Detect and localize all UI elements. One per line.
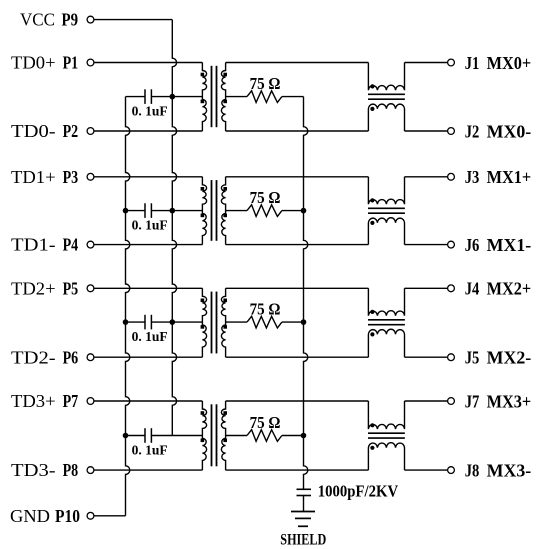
label J2 MX0- (465, 121, 532, 141)
svg-text:MX0-: MX0- (487, 121, 532, 141)
transformer T4 phase dots (201, 411, 227, 442)
svg-text:MX3+: MX3+ (487, 391, 532, 411)
wire secondary bottom to choke (226, 130, 369, 132)
label TD3+ P7 (11, 391, 78, 411)
choke L4 bottom winding (368, 443, 404, 470)
terminal J6 MX1- (448, 241, 455, 248)
svg-text:MX1-: MX1- (487, 235, 532, 255)
svg-text:75 Ω: 75 Ω (250, 74, 281, 93)
transformer T3 secondary winding (221, 288, 225, 357)
svg-text:J5: J5 (465, 348, 480, 368)
junction VCC bus channel 1 (170, 208, 176, 214)
svg-text:MX1+: MX1+ (487, 167, 532, 187)
svg-text:TD0-: TD0- (11, 121, 56, 141)
net VCC vertical bus (172, 20, 176, 436)
terminal TD3+ P7 (87, 398, 94, 405)
net shield resistor bus (304, 97, 308, 490)
wire resistor to shield bus (282, 210, 304, 212)
label GND P10 (10, 506, 80, 526)
svg-text:SHIELD: SHIELD (280, 531, 326, 548)
terminal TD0- P2 (87, 128, 94, 135)
choke L2 core (368, 208, 405, 213)
wire TD2+ (94, 287, 202, 289)
label TD0+ P1 (11, 53, 78, 73)
wire secondary bottom to choke (226, 356, 369, 358)
choke L2 bottom winding (368, 218, 404, 245)
label J5 MX2- (465, 348, 532, 368)
choke L1 phase dots (370, 84, 374, 111)
label TD2- P6 (11, 347, 78, 367)
terminal J7 MX3+ (448, 398, 455, 405)
junction GND bus channel 3 (123, 433, 129, 439)
svg-text:0. 1uF: 0. 1uF (132, 219, 168, 234)
terminal J8 MX3- (448, 467, 455, 474)
wire choke to J6 (405, 244, 448, 246)
svg-text:TD3+: TD3+ (11, 391, 56, 411)
terminal TD2+ P5 (87, 285, 94, 292)
transformer T4 primary winding (202, 401, 206, 470)
choke L3 bottom winding (368, 329, 404, 357)
choke L1 core (368, 94, 405, 99)
svg-text:P2: P2 (63, 121, 79, 141)
choke L4 phase dots (370, 423, 374, 450)
junction VCC bus channel 0 (170, 94, 176, 100)
transformer T2 core (212, 180, 217, 241)
wire TD0+ (94, 62, 202, 64)
choke L3 top winding (368, 288, 404, 315)
transformer T3 primary winding (202, 288, 206, 357)
svg-text:TD2+: TD2+ (11, 278, 56, 298)
wire GND to bus (94, 515, 126, 517)
ground GND terminal P10 (87, 512, 94, 519)
svg-text:J2: J2 (465, 121, 480, 141)
wire resistor to shield bus (282, 96, 304, 98)
svg-text:75 Ω: 75 Ω (250, 300, 281, 319)
transformer T1 core (212, 66, 217, 127)
svg-text:0. 1uF: 0. 1uF (132, 330, 168, 345)
terminal TD0+ P1 (87, 59, 94, 66)
wire secondary top to choke (226, 176, 369, 178)
wire TD0- (94, 130, 202, 132)
label TD1- P4 (11, 235, 78, 255)
wire primary center tap (172, 321, 202, 323)
svg-text:TD2-: TD2- (11, 347, 56, 367)
transformer T1 phase dots (201, 73, 227, 104)
terminal TD1+ P3 (87, 173, 94, 180)
label J7 MX3+ (465, 391, 532, 411)
capacitor C3 0.1uF (126, 315, 173, 330)
wire secondary bottom to choke (226, 244, 369, 246)
svg-text:P3: P3 (63, 167, 79, 187)
svg-text:J7: J7 (465, 391, 480, 411)
wire secondary center tap (226, 96, 247, 98)
label J6 MX1- (465, 235, 532, 255)
svg-text:P1: P1 (63, 53, 79, 73)
junction shield bus channel 3 (301, 433, 307, 439)
power VCC terminal P9 (87, 16, 94, 23)
label J1 MX0+ (465, 53, 532, 73)
label J8 MX3- (465, 461, 532, 481)
wire TD1- (94, 244, 202, 246)
svg-text:P8: P8 (63, 460, 79, 480)
wire choke to J8 (405, 469, 448, 471)
wire TD2- (94, 356, 202, 358)
svg-text:GND: GND (10, 506, 50, 526)
junction VCC bus channel 2 (170, 319, 176, 325)
svg-text:J4: J4 (465, 279, 480, 299)
svg-text:TD1+: TD1+ (11, 167, 56, 187)
choke L4 top winding (368, 401, 404, 429)
resistor R3 75 ohm (247, 316, 282, 328)
transformer T3 phase dots (201, 299, 227, 329)
svg-text:75 Ω: 75 Ω (250, 413, 281, 432)
svg-text:P4: P4 (63, 235, 79, 255)
wire choke to J5 (405, 356, 448, 358)
label TD3- P8 (11, 460, 78, 480)
svg-text:1000pF/2KV: 1000pF/2KV (318, 482, 399, 501)
svg-text:0. 1uF: 0. 1uF (132, 444, 168, 459)
wire choke to J1 (405, 62, 448, 64)
terminal TD1- P4 (87, 241, 94, 248)
choke L2 phase dots (370, 198, 374, 225)
wire secondary center tap (226, 210, 247, 212)
wire TD1+ (94, 176, 202, 178)
wire secondary top to choke (226, 287, 369, 289)
wire primary center tap (172, 96, 202, 98)
wire TD3+ (94, 400, 202, 402)
wire VCC to bus (94, 19, 172, 21)
wire resistor to shield bus (282, 435, 304, 437)
net GND vertical bus (126, 97, 130, 516)
svg-text:0. 1uF: 0. 1uF (132, 105, 168, 120)
capacitor C1 0.1uF (126, 89, 173, 104)
choke L1 top winding (368, 63, 404, 91)
label TD1+ P3 (11, 167, 78, 187)
terminal J4 MX2+ (448, 285, 455, 292)
terminal TD2- P6 (87, 354, 94, 361)
transformer T2 primary winding (202, 177, 206, 245)
svg-text:P9: P9 (62, 10, 79, 30)
transformer T4 secondary winding (221, 401, 225, 470)
transformer T2 phase dots (201, 187, 227, 217)
terminal TD3- P8 (87, 467, 94, 474)
transformer T4 core (212, 404, 217, 466)
choke L3 phase dots (370, 310, 374, 337)
wire secondary bottom to choke (226, 469, 369, 471)
capacitor C4 0.1uF (126, 428, 173, 443)
wire choke to J4 (405, 287, 448, 289)
svg-text:MX2-: MX2- (487, 348, 532, 368)
label VCC P9 (20, 10, 78, 30)
svg-text:MX0+: MX0+ (487, 53, 532, 73)
svg-text:75 Ω: 75 Ω (250, 188, 281, 207)
wire secondary top to choke (226, 400, 369, 402)
terminal J1 MX0+ (448, 59, 455, 66)
wire primary center tap (172, 435, 202, 437)
wire secondary center tap (226, 321, 247, 323)
wire choke to J3 (405, 176, 448, 178)
junction shield bus channel 2 (301, 319, 307, 325)
wire choke to J7 (405, 400, 448, 402)
capacitor C2 0.1uF (126, 203, 173, 218)
label J3 MX1+ (465, 167, 532, 187)
label TD2+ P5 (11, 278, 78, 298)
wire secondary center tap (226, 435, 247, 437)
junction GND bus channel 2 (123, 319, 129, 325)
svg-text:TD1-: TD1- (11, 235, 56, 255)
svg-text:P6: P6 (63, 347, 79, 367)
resistor R4 75 ohm (247, 430, 282, 442)
svg-text:J8: J8 (465, 461, 480, 481)
transformer T1 primary winding (202, 63, 206, 132)
choke L2 top winding (368, 177, 404, 204)
svg-text:J1: J1 (465, 53, 480, 73)
transformer T2 secondary winding (221, 177, 225, 245)
choke L3 core (368, 320, 405, 325)
svg-text:J6: J6 (465, 235, 480, 255)
choke L1 bottom winding (368, 104, 404, 131)
wire choke to J2 (405, 130, 448, 132)
wire resistor to shield bus (282, 321, 304, 323)
wire TD3- (94, 469, 202, 471)
svg-text:P7: P7 (63, 391, 79, 411)
svg-text:TD0+: TD0+ (11, 53, 56, 73)
ground SHIELD symbol (291, 512, 315, 527)
choke L4 core (368, 433, 405, 438)
svg-text:TD3-: TD3- (11, 460, 56, 480)
svg-text:J3: J3 (465, 167, 480, 187)
svg-text:MX3-: MX3- (487, 461, 532, 481)
transformer T1 secondary winding (221, 63, 225, 132)
svg-text:P5: P5 (63, 278, 79, 298)
junction GND bus channel 1 (123, 208, 129, 214)
svg-text:P10: P10 (55, 506, 80, 526)
resistor R1 75 ohm (247, 91, 282, 103)
terminal J5 MX2- (448, 354, 455, 361)
svg-text:MX2+: MX2+ (487, 279, 532, 299)
terminal J2 MX0- (448, 128, 455, 135)
label TD0- P2 (11, 121, 78, 141)
capacitor C5 1000pF/2KV (297, 489, 312, 511)
resistor R2 75 ohm (247, 205, 282, 217)
junction shield bus channel 1 (301, 208, 307, 214)
svg-text:VCC: VCC (20, 10, 55, 30)
wire primary center tap (172, 210, 202, 212)
terminal J3 MX1+ (448, 173, 455, 180)
transformer T3 core (212, 292, 217, 354)
wire secondary top to choke (226, 62, 369, 64)
label J4 MX2+ (465, 279, 532, 299)
